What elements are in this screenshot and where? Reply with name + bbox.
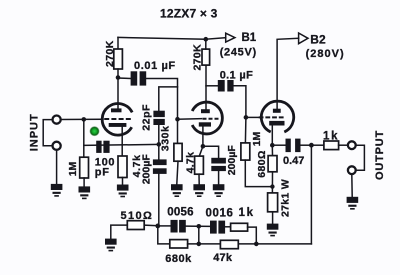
svg-text:4.7k: 4.7k <box>184 152 196 174</box>
wire 1M second top lead <box>244 117 247 142</box>
svg-text:1M: 1M <box>67 161 79 176</box>
svg-text:INPUT: INPUT <box>28 113 40 151</box>
wire bottom feedback rail <box>158 226 170 244</box>
wire 4.7k bottom lead <box>122 178 124 185</box>
wire 270K second top lead <box>205 39 207 49</box>
V2 anode bar <box>201 109 210 113</box>
wire coupling cap right lead to grid V2 <box>146 79 177 120</box>
ground under 1M <box>79 186 91 199</box>
wire feedback drop from 200uF <box>158 174 160 226</box>
tube V1 envelope <box>102 104 132 136</box>
wire 1M second bottom to cathode divider <box>245 160 272 187</box>
wire 680ohm to 27k <box>271 172 273 193</box>
node grid V2 junction <box>175 117 180 122</box>
wire input to grid V1 <box>60 118 103 120</box>
ground under 27k <box>267 224 279 237</box>
V1 cathode bar <box>109 123 127 127</box>
capacitor 0056 <box>171 220 178 233</box>
input terminal upper <box>53 116 61 124</box>
svg-text:1k: 1k <box>239 207 255 219</box>
svg-text:200µF: 200µF <box>226 145 238 176</box>
ground under 4.7k V2 <box>193 184 205 197</box>
wire plate V1 riser <box>117 69 119 109</box>
B1 arrow terminal <box>226 33 235 42</box>
resistor R 270K (second stage plate load) <box>202 49 210 65</box>
wire 0.1uF right lead to grid V3 <box>234 86 246 118</box>
capacitor 22pF <box>153 111 164 117</box>
ground under output <box>347 197 359 210</box>
wire 270K R1 top lead <box>117 37 119 49</box>
wire 27k bottom lead <box>272 212 274 224</box>
V3 grid wire <box>246 116 258 118</box>
svg-text:0016: 0016 <box>206 208 234 220</box>
svg-text:1k: 1k <box>323 130 339 142</box>
output terminal upper <box>348 141 356 149</box>
capacitor 200uF (cathode bypass V1) <box>153 159 167 165</box>
resistor R 680 ohm (cathode V3) <box>268 156 277 172</box>
ground under 4.7k V1 <box>117 185 129 198</box>
wire input lower terminal drop <box>56 150 58 184</box>
input bracket <box>43 120 53 146</box>
wire B2 to plate of V3 <box>277 38 299 108</box>
wire 330k bottom lead <box>177 161 178 184</box>
resistor R 1M (grid leak V3) <box>241 143 250 160</box>
wire node B link down <box>198 226 200 244</box>
svg-text:330k: 330k <box>159 125 171 151</box>
wire 680k to 47k <box>188 243 221 245</box>
wire 47k to output drop <box>238 243 311 245</box>
svg-text:22pF: 22pF <box>140 104 152 131</box>
resistor R 330k (grid leak V2) <box>174 143 182 161</box>
resistor R 680k (feedback) <box>170 240 188 248</box>
resistor R 4.7k (cathode V2) <box>195 156 204 174</box>
ground under input <box>51 184 63 197</box>
svg-text:0056: 0056 <box>167 207 193 219</box>
svg-text:680k: 680k <box>165 253 192 265</box>
wire 200uF top lead <box>158 144 160 159</box>
V2 cathode bar <box>199 122 211 126</box>
node lower link junction <box>197 242 202 247</box>
tube V3 envelope <box>261 101 293 132</box>
wire 0056 to node B <box>186 225 210 227</box>
node cathode V2 junction <box>201 144 206 149</box>
wire 510 right lead <box>144 224 158 227</box>
svg-text:47k: 47k <box>213 252 233 264</box>
ground under 200uF V2 <box>213 184 225 197</box>
node output junction <box>309 143 314 148</box>
resistor R 270K (first stage plate load) <box>114 49 123 69</box>
wire B1 tap <box>206 38 226 40</box>
wire cathode V1 rail <box>84 144 159 145</box>
svg-text:B1: B1 <box>242 32 257 44</box>
wire 0.47 right lead <box>301 144 312 146</box>
output bracket <box>356 145 365 170</box>
wire V1 cathode drop <box>121 127 123 156</box>
svg-text:510Ω: 510Ω <box>121 210 154 222</box>
svg-text:1M: 1M <box>251 131 263 146</box>
wire node A to 0056 <box>158 225 171 227</box>
svg-text:0.1 µF: 0.1 µF <box>220 69 254 81</box>
wire feedback takeoff drop <box>310 145 312 244</box>
capacitor 0.01 uF (coupling V1-V2) <box>131 71 138 85</box>
capacitor 200uF (cathode bypass V2) <box>211 158 226 164</box>
node feedback node A <box>155 224 160 229</box>
svg-text:pF: pF <box>95 167 110 179</box>
node rail junction <box>254 242 259 247</box>
svg-text:(245V): (245V) <box>220 47 257 59</box>
svg-text:270K: 270K <box>192 44 204 71</box>
green dot mark <box>89 126 99 136</box>
svg-text:(280V): (280V) <box>306 48 345 60</box>
svg-text:27k1 W: 27k1 W <box>279 179 291 217</box>
capacitor 100pF <box>96 141 101 153</box>
wire 22pF tap <box>159 87 178 111</box>
wire V3 cathode drop <box>271 126 273 146</box>
wire 680ohm top lead <box>271 145 273 155</box>
capacitor 0016 <box>210 221 217 234</box>
node grid V3 junction <box>244 115 249 120</box>
wire 330k top lead <box>177 119 179 143</box>
wire coupling cap left lead <box>118 77 131 80</box>
svg-text:270K: 270K <box>104 40 116 67</box>
ground under 330k <box>171 184 183 197</box>
node B1 tap junction <box>204 37 209 42</box>
wire V2 plate riser <box>205 65 207 109</box>
wire output lower terminal drop <box>351 174 353 197</box>
node input / 1M junction <box>82 117 87 122</box>
V2 grid wire <box>178 118 202 121</box>
V1 grid dashes <box>104 118 131 120</box>
V3 grid dashes <box>259 116 284 118</box>
svg-text:0.47: 0.47 <box>283 155 304 167</box>
wire 0.1uF left lead <box>206 85 218 87</box>
wire 22pF bottom lead <box>158 125 160 144</box>
wire top supply rail <box>118 37 206 39</box>
V3 anode bar <box>273 109 281 113</box>
V3 cathode bar <box>269 121 284 126</box>
V1 anode bar <box>111 108 122 112</box>
resistor R 4.7k (cathode V1) <box>118 156 127 178</box>
wire 1M top lead <box>83 119 85 157</box>
wire 510 left lead to ground <box>111 225 128 239</box>
wire 1k fb right lead down to rail <box>248 227 257 244</box>
svg-text:OUTPUT: OUTPUT <box>374 130 386 180</box>
ground under 510 <box>105 239 117 252</box>
svg-text:B2: B2 <box>310 33 326 47</box>
node plate V1 / coupling junction <box>116 75 121 80</box>
svg-text:680Ω: 680Ω <box>256 150 268 178</box>
svg-text:0.01 µF: 0.01 µF <box>134 60 176 72</box>
V2 grid dashes <box>203 118 220 120</box>
svg-text:200µF: 200µF <box>140 154 152 185</box>
wire to 200uF V2 <box>203 146 219 158</box>
output terminal lower <box>348 166 356 174</box>
wire to 4.7k V2 <box>199 146 203 156</box>
wire 1k to output terminal <box>339 144 348 146</box>
node cathode V1 bypass junction <box>157 142 162 147</box>
wire 0016 to 1k fb <box>225 226 231 228</box>
resistor R 27k 1W <box>268 193 278 212</box>
wire 4.7k V2 bottom lead <box>198 174 200 184</box>
wire 1M bottom lead <box>83 178 85 186</box>
node divider junction <box>270 184 274 188</box>
resistor R 1k (output build-out) <box>324 141 339 150</box>
resistor R 47k (feedback) <box>220 240 238 248</box>
node cathode V3 junction <box>270 143 275 148</box>
tube V2 envelope <box>192 102 222 134</box>
svg-text:12ZX7 × 3: 12ZX7 × 3 <box>160 6 218 20</box>
resistor R 1k (feedback) <box>231 223 248 231</box>
input terminal lower <box>53 142 61 150</box>
node B junction <box>197 224 202 229</box>
wire 1k output left lead <box>311 144 324 146</box>
resistor R 1M (grid leak V1) <box>80 157 89 178</box>
wire 0.47 left lead <box>272 144 285 146</box>
wire 200uF V2 bottom lead <box>218 171 220 184</box>
wire V2 cathode drop <box>202 127 204 147</box>
resistor R 510 ohm <box>127 221 144 230</box>
capacitor 0.47 (output coupling) <box>286 139 291 153</box>
capacitor 0.1 uF (coupling V2-V3) <box>218 80 225 92</box>
B2 arrow terminal <box>299 33 308 44</box>
